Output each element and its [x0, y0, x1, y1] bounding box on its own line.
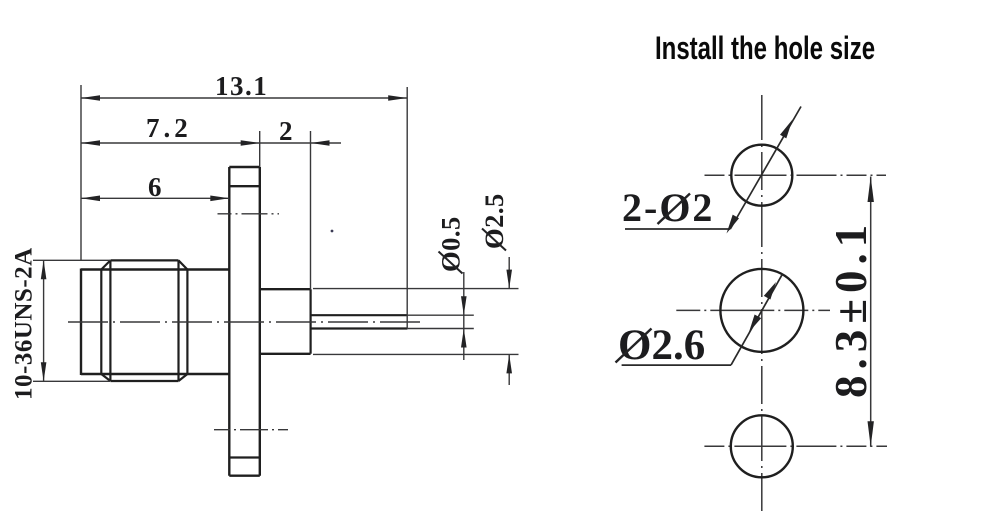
- dia 2.5 dim line lower: [508, 354, 510, 385]
- dia 2.5 lower arrow: [506, 354, 512, 373]
- wire: upper mounting hole edge: [229, 185, 259, 187]
- dia 0.5 dim line upper: [463, 272, 465, 315]
- dim 13.1 line: [81, 97, 407, 99]
- dim 2 extension line: [310, 131, 312, 289]
- leader diam2.6 shoulder: [622, 364, 731, 366]
- svg-text:2: 2: [279, 116, 295, 146]
- wire: hex bottom edge: [110, 380, 178, 382]
- svg-text:6: 6: [148, 172, 164, 202]
- svg-text:2-O2: 2-O2: [622, 185, 714, 230]
- dim 6 left arrow: [81, 196, 100, 202]
- dim 2 line with tail: [260, 142, 341, 144]
- middle hole circle: [720, 269, 803, 352]
- wire: body top edge: [81, 268, 229, 270]
- dia 0.5 upper arrow: [461, 296, 467, 315]
- dim 6 line: [81, 197, 229, 199]
- dim 13.1 right arrow: [388, 95, 407, 101]
- stray speck: [331, 230, 334, 233]
- wire: body left edge: [80, 269, 82, 376]
- top mounting hole circle: [731, 145, 792, 206]
- dim 13.1 extension right: [406, 87, 408, 329]
- thread dim line: [43, 260, 45, 381]
- top hole centerline: [705, 174, 887, 176]
- wire: insulator cylinder bottom: [260, 353, 311, 355]
- wire: insulator cylinder top: [260, 288, 311, 290]
- svg-text:13.1: 13.1: [215, 71, 268, 101]
- wire: pin bottom edge: [311, 327, 408, 329]
- wire: hex chamfer bottom-left: [101, 374, 110, 381]
- dia 2.5 extension top: [313, 288, 519, 290]
- wire: hex chamfer top-right: [179, 260, 188, 269]
- dim 2 extension upper flange: [259, 131, 261, 167]
- dim 8.3 top arrow: [868, 177, 874, 203]
- dia 2.5 dim line upper: [508, 257, 510, 289]
- leader 2-diam2 upper arrow: [780, 120, 793, 139]
- wire: body bottom edge: [81, 373, 229, 375]
- wire: insulator cylinder right edge: [310, 289, 312, 354]
- label dia 2.5: [479, 193, 509, 250]
- hole pattern vertical centerline: [761, 95, 763, 512]
- dia 2.5 extension bottom: [313, 353, 519, 355]
- dia 0.5 dim line lower: [463, 329, 465, 361]
- wire: flange right edge: [259, 167, 261, 476]
- dim 2 arrow: [311, 140, 330, 146]
- centerline: main axis: [68, 321, 421, 323]
- wire: hex top edge: [110, 259, 178, 261]
- dim 7.2 left arrow: [81, 140, 100, 146]
- dim 8.3 line: [870, 177, 872, 447]
- dim 13.1 left arrow: [81, 95, 100, 101]
- wire: flange left edge: [228, 167, 230, 476]
- label dia 0.5: [436, 216, 466, 273]
- dia 2.5 upper arrow: [506, 270, 512, 289]
- leader 2-diam2 lower arrow: [727, 215, 740, 234]
- leader diam2.6 diagonal: [731, 274, 782, 365]
- wire: hex right corner line: [186, 270, 188, 375]
- dim 13.1 extension left: [80, 85, 82, 260]
- wire: flange top edge: [229, 166, 259, 168]
- centerline: upper hole axis: [218, 213, 280, 215]
- pin extension bottom (for dia 0.5): [407, 328, 473, 330]
- diam2.6 inner lower arrow: [749, 315, 761, 333]
- wire: hex left corner line: [100, 270, 102, 375]
- wire: flange bottom edge: [229, 475, 259, 477]
- dim 7.2 right arrow: [241, 140, 260, 146]
- leader 2-diam2 shoulder: [625, 228, 730, 230]
- pin extension top (for dia 0.5): [407, 314, 473, 316]
- thread dim bottom arrow: [41, 362, 47, 381]
- diam2.6 inner upper arrow: [764, 282, 776, 300]
- thread dim top arrow: [41, 260, 47, 279]
- label diam2.6: [616, 322, 706, 369]
- svg-text:7.2: 7.2: [146, 113, 192, 143]
- dia 0.5 lower arrow: [461, 329, 467, 348]
- bottom hole centerline: [704, 445, 887, 447]
- dim 6 right arrow: [210, 196, 229, 202]
- dim 7.2 line: [81, 142, 260, 144]
- svg-text:8.3±0.1: 8.3±0.1: [826, 219, 876, 398]
- thread dim extension bottom: [33, 380, 110, 382]
- dia 0.5 dim line middle: [463, 315, 465, 328]
- svg-text:10-36UNS-2A: 10-36UNS-2A: [11, 247, 38, 400]
- centerline: lower hole axis: [214, 429, 288, 431]
- label 2-diam2: [622, 185, 714, 230]
- wire: hex chamfer top-left: [101, 260, 110, 269]
- wire: pin top edge: [311, 314, 408, 316]
- dim 8.3 bottom arrow: [868, 421, 874, 447]
- bottom mounting hole circle: [731, 415, 793, 477]
- middle hole centerline: [676, 309, 830, 311]
- wire: hex chamfer bottom-right: [179, 374, 188, 381]
- thread dim extension top: [33, 259, 110, 261]
- leader 2-diam2 diagonal: [730, 107, 801, 230]
- wire: lower mounting hole edge: [229, 456, 259, 458]
- title: Install the hole size: [655, 30, 875, 67]
- wire: hex flat right line: [177, 260, 179, 381]
- svg-text:O2.6: O2.6: [618, 322, 705, 369]
- wire: hex flat left line: [109, 260, 111, 381]
